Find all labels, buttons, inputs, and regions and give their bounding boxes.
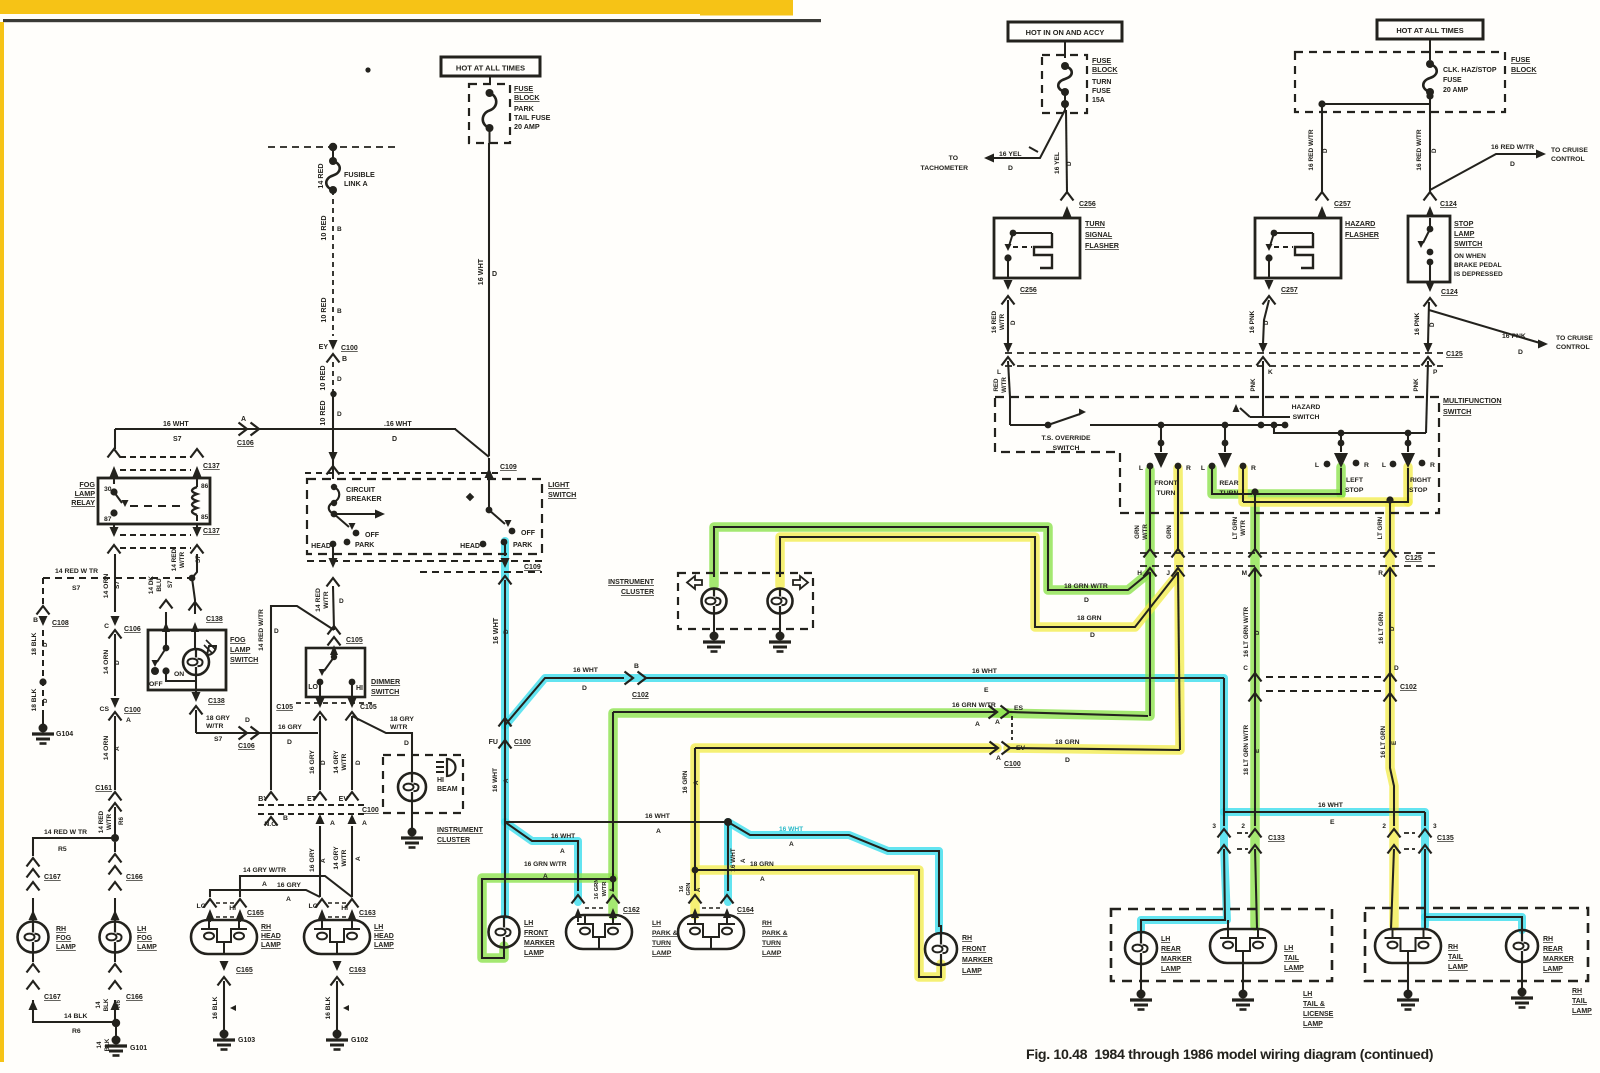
svg-text:TAIL: TAIL	[1448, 954, 1464, 961]
svg-text:W/TR: W/TR	[602, 881, 608, 897]
svg-text:W/TR: W/TR	[999, 313, 1006, 330]
wire: 16 WHT branch to LH park lamp	[505, 822, 578, 891]
svg-text:C100: C100	[341, 345, 358, 352]
svg-text:LAMP: LAMP	[1572, 1008, 1592, 1015]
node: yellow splice to RH front marker	[692, 867, 699, 874]
svg-text:MULTIFUNCTION: MULTIFUNCTION	[1443, 396, 1502, 405]
svg-text:D: D	[1263, 320, 1270, 325]
svg-text:18 LT GRN W/TR: 18 LT GRN W/TR	[1243, 724, 1250, 775]
svg-text:PARK &: PARK &	[762, 930, 788, 937]
wire: 16 GRN main run to front right	[1178, 572, 1180, 750]
wire: rear turn R output	[1242, 468, 1244, 502]
svg-text:RH: RH	[1448, 944, 1458, 951]
svg-text:C105: C105	[346, 637, 363, 644]
connector C100 EV	[990, 742, 999, 755]
svg-text:16 PNK: 16 PNK	[1502, 333, 1526, 340]
wire: 16 GRN W/TR main run to front left	[1149, 572, 1151, 716]
ground G101	[115, 1023, 117, 1038]
multifunction switch dashed outline	[995, 397, 1439, 513]
svg-text:A: A	[693, 780, 700, 785]
svg-text:CLK. HAZ/STOP: CLK. HAZ/STOP	[1443, 67, 1497, 74]
svg-text:TAIL: TAIL	[1284, 955, 1300, 962]
svg-text:LO: LO	[309, 903, 318, 910]
svg-text:OFF: OFF	[521, 530, 536, 537]
svg-text:C167: C167	[44, 874, 61, 881]
node: splice on feed bus	[329, 143, 337, 151]
wire: 16 WHT down to RH park lamp	[727, 822, 729, 891]
wire: 16 YEL branch to tachometer	[990, 110, 1065, 158]
svg-text:A: A	[760, 876, 765, 883]
svg-text:C257: C257	[1334, 201, 1351, 208]
svg-text:16 GRY: 16 GRY	[278, 724, 302, 731]
svg-text:A: A	[114, 746, 121, 751]
svg-text:LAMP: LAMP	[261, 942, 281, 949]
node: splice in 10 RED	[330, 391, 336, 397]
svg-text:LINK A: LINK A	[344, 179, 368, 188]
svg-text:MARKER: MARKER	[1543, 956, 1574, 963]
wire: LT GRN down to C125	[1389, 502, 1391, 549]
svg-text:C: C	[104, 623, 109, 630]
svg-text:W/TR: W/TR	[179, 551, 186, 568]
svg-text:2: 2	[1382, 823, 1386, 830]
ground G103	[220, 1030, 229, 1039]
svg-text:G101: G101	[130, 1045, 147, 1052]
svg-text:16 WHT: 16 WHT	[476, 258, 485, 285]
svg-text:14 RED W TR: 14 RED W TR	[55, 568, 98, 575]
connector C138 lower	[195, 675, 197, 692]
svg-text:R6: R6	[115, 1000, 122, 1008]
svg-text:R6: R6	[118, 817, 125, 825]
wire: fuse output tee inside fuse block	[1322, 103, 1430, 105]
wire: 16 PNK to C125 (stop)	[1428, 302, 1429, 344]
svg-text:LAMP: LAMP	[75, 489, 96, 498]
svg-text:R: R	[1378, 570, 1383, 577]
svg-text:LAMP: LAMP	[524, 950, 544, 957]
svg-text:C163: C163	[359, 910, 376, 917]
svg-text:D: D	[1389, 626, 1396, 631]
connector C108	[42, 578, 44, 608]
wire highlight: LT GRN W/TR rear-left combined (green)	[1212, 468, 1341, 494]
svg-text:A: A	[241, 416, 246, 423]
page: stray ink speck	[365, 67, 370, 72]
svg-text:W/TR: W/TR	[106, 813, 113, 830]
svg-text:HI: HI	[229, 905, 236, 912]
svg-text:D: D	[1431, 148, 1438, 153]
ground G102	[333, 1030, 342, 1039]
svg-text:C108: C108	[52, 620, 69, 627]
wire: 16 WHT branch to fog lamp relay (horizontal)	[115, 428, 456, 430]
connector C163 (LH head lamp)	[316, 899, 329, 908]
svg-text:FU: FU	[489, 739, 498, 746]
svg-text:L: L	[1139, 465, 1143, 472]
svg-text:16: 16	[679, 885, 685, 892]
svg-text:14 ORN: 14 ORN	[103, 650, 110, 675]
wire: hazard output row	[1274, 425, 1426, 433]
LH head lamp	[304, 920, 370, 954]
svg-text:RH: RH	[762, 920, 772, 927]
svg-text:LAMP: LAMP	[137, 944, 157, 951]
connector C109 below light switch	[307, 560, 542, 562]
svg-text:D: D	[1010, 320, 1017, 325]
wire: 18 GRN run from C100 EV to front right (yellow)	[1010, 748, 1180, 750]
svg-text:16 GRN: 16 GRN	[682, 770, 689, 793]
svg-text:14 RED: 14 RED	[98, 810, 105, 833]
wire: LT GRN W/TR down right side	[1254, 570, 1256, 826]
wire: 16 BLK to ground G103	[223, 981, 225, 1032]
wire: GRN W/TR front turn L down to C125	[1149, 468, 1151, 549]
wire: GRN front turn R down to C125	[1177, 468, 1179, 549]
svg-text:D: D	[337, 411, 342, 418]
connector C109 right pin	[485, 468, 494, 478]
svg-text:A: A	[740, 858, 747, 863]
svg-text:LAMP: LAMP	[230, 645, 251, 654]
svg-text:HI: HI	[356, 685, 363, 692]
svg-text:18 GRY: 18 GRY	[390, 716, 414, 723]
fuse: PARK TAIL FUSE 20 AMP	[486, 89, 494, 97]
svg-text:D: D	[1090, 632, 1095, 639]
svg-text:SWITCH: SWITCH	[371, 687, 399, 696]
connector C100 (CS pin)	[111, 698, 120, 708]
svg-text:18 GRY: 18 GRY	[206, 715, 230, 722]
LH rear marker lamp	[1125, 932, 1157, 964]
svg-text:CS: CS	[100, 706, 110, 713]
svg-text:R: R	[1430, 462, 1435, 469]
svg-text:A: A	[696, 887, 702, 892]
svg-text:14 RED W/TR: 14 RED W/TR	[258, 609, 265, 651]
svg-text:D: D	[1084, 597, 1089, 604]
T.S. override switch	[1009, 397, 1011, 425]
connector C100 (EY / B)	[329, 340, 338, 350]
svg-text:14 RED: 14 RED	[316, 163, 325, 188]
svg-text:HEAD: HEAD	[460, 543, 480, 550]
svg-text:H: H	[1137, 570, 1142, 577]
svg-text:A: A	[320, 858, 327, 863]
svg-text:16 RED W/TR: 16 RED W/TR	[1491, 144, 1534, 151]
svg-text:INSTRUMENT: INSTRUMENT	[608, 579, 655, 586]
svg-text:W/TR: W/TR	[390, 724, 407, 731]
connector C166 lower	[114, 952, 116, 962]
wire: 14 GRY W/TR crossover to RH headlamp HI	[240, 876, 352, 897]
svg-text:18 GRN: 18 GRN	[1055, 739, 1080, 746]
svg-text:HOT AT ALL TIMES: HOT AT ALL TIMES	[1396, 26, 1463, 35]
svg-text:TURN: TURN	[1157, 490, 1176, 497]
ground RH tail lamp	[1407, 963, 1409, 992]
svg-text:HAZARD: HAZARD	[1345, 219, 1375, 228]
svg-text:BRAKE PEDAL: BRAKE PEDAL	[1454, 262, 1502, 269]
svg-text:CONTROL: CONTROL	[1551, 156, 1585, 163]
connector C256 (flasher input)	[1061, 192, 1074, 201]
svg-text:LT GRN: LT GRN	[1232, 516, 1239, 539]
svg-text:.16 WHT: .16 WHT	[384, 421, 412, 428]
svg-text:LEFT: LEFT	[1346, 477, 1364, 484]
svg-text:W/TR: W/TR	[341, 849, 348, 866]
svg-text:TO CRUISE: TO CRUISE	[1556, 335, 1593, 342]
svg-text:16 WHT: 16 WHT	[972, 668, 998, 675]
wire: 16 BLK to ground G102	[336, 981, 338, 1032]
svg-text:16 WHT: 16 WHT	[645, 813, 671, 820]
svg-text:BLOCK: BLOCK	[1092, 65, 1118, 74]
svg-text:C106: C106	[238, 743, 255, 750]
node: ground splice	[112, 1019, 120, 1027]
svg-text:A: A	[355, 856, 362, 861]
svg-text:TURN: TURN	[1085, 219, 1105, 228]
fuse: TURN FUSE 15A	[1061, 62, 1069, 70]
svg-text:A: A	[126, 717, 131, 724]
svg-text:E: E	[1330, 819, 1335, 826]
left turn indicator lamp	[702, 589, 727, 614]
bus: dashed feed line at top	[268, 146, 398, 148]
svg-text:C135: C135	[1437, 835, 1454, 842]
svg-text:FOG: FOG	[230, 635, 246, 644]
wire: HEAD output 14 RED W/TR leaving light switch	[332, 544, 334, 558]
svg-text:16 WHT: 16 WHT	[551, 833, 575, 840]
svg-text:TURN: TURN	[762, 940, 781, 947]
fuse: CLK. HAZ/STOP FUSE 20 AMP	[1426, 60, 1434, 68]
fuse block (park tail fuse) dashed box	[469, 84, 510, 143]
light switch right contacts OFF/PARK/HEAD	[509, 528, 516, 535]
svg-text:ON: ON	[174, 671, 184, 678]
RH rear lamps dashed box	[1365, 908, 1588, 981]
svg-text:W/TR: W/TR	[1001, 377, 1008, 393]
wire: PARK output 16 WHT (cyan) leaving light switch	[504, 541, 506, 556]
svg-text:LH: LH	[374, 924, 383, 931]
wire: 16 RED W/TR to stop lamp switch	[1429, 104, 1431, 192]
connector C105 above dimmer switch	[328, 626, 341, 635]
wire: 14 RED W/TR from relay coil down to fog switch	[196, 524, 198, 535]
svg-text:C166: C166	[126, 994, 143, 1001]
connector C102 (16 WHT)	[625, 672, 634, 685]
page: yellow left edge strip	[0, 22, 4, 1062]
svg-text:MARKER: MARKER	[962, 957, 993, 964]
svg-text:BREAKER: BREAKER	[346, 494, 382, 503]
svg-text:LICENSE: LICENSE	[1303, 1011, 1334, 1018]
svg-text:A: A	[656, 828, 661, 835]
svg-text:R5: R5	[58, 846, 67, 853]
wire: 16 GRN to RH lamps	[695, 747, 996, 749]
svg-text:TACHOMETER: TACHOMETER	[921, 165, 969, 172]
ground RH rear marker	[1521, 962, 1523, 990]
svg-text:D: D	[245, 717, 250, 724]
svg-text:FUSE: FUSE	[1511, 55, 1530, 64]
svg-text:10 RED: 10 RED	[318, 365, 327, 390]
svg-text:D: D	[1008, 165, 1013, 172]
svg-text:LH: LH	[1284, 945, 1293, 952]
svg-text:ET: ET	[307, 796, 317, 803]
page: black rule under header	[3, 19, 821, 22]
svg-text:D: D	[404, 740, 409, 747]
svg-text:HI: HI	[341, 905, 348, 912]
hazard flasher	[1255, 218, 1341, 278]
svg-text:14: 14	[95, 1001, 102, 1008]
svg-text:10 RED: 10 RED	[319, 297, 328, 322]
svg-text:STOP: STOP	[1409, 487, 1428, 494]
svg-text:HEAD: HEAD	[311, 543, 331, 550]
fog lamp switch box	[148, 630, 226, 690]
svg-text:16 BLK: 16 BLK	[212, 996, 219, 1019]
svg-text:D: D	[1254, 630, 1261, 635]
svg-text:D: D	[1066, 161, 1073, 166]
svg-text:C106: C106	[124, 626, 141, 633]
svg-text:TURN: TURN	[652, 940, 671, 947]
ground LH rear marker	[1140, 964, 1142, 992]
connector C257 (hazard flasher input)	[1316, 192, 1329, 201]
svg-text:L: L	[1315, 462, 1319, 469]
connector FU / C100	[499, 718, 512, 727]
connector C167 upper	[27, 858, 40, 867]
wire: 16 GRN W/TR to LH lamps	[613, 711, 995, 713]
svg-text:A: A	[995, 719, 1000, 726]
svg-text:TURN: TURN	[1092, 79, 1111, 86]
hazard switch contacts	[1258, 422, 1265, 429]
svg-text:PARK: PARK	[514, 104, 535, 113]
svg-text:LAMP: LAMP	[374, 942, 394, 949]
svg-text:16 YEL: 16 YEL	[1054, 152, 1061, 174]
connector C124 (stop lamp switch output)	[1426, 282, 1435, 292]
svg-text:W/TR: W/TR	[323, 591, 330, 608]
svg-text:E: E	[1391, 741, 1398, 745]
RH tail lamp	[1375, 929, 1441, 963]
svg-text:D: D	[503, 629, 510, 634]
right turn indicator lamp	[768, 589, 793, 614]
svg-text:B: B	[337, 226, 342, 233]
svg-text:R: R	[1364, 462, 1369, 469]
connector C100 (BY / ET / EV row)	[265, 792, 278, 801]
svg-text:A: A	[610, 887, 616, 892]
fuse block (turn fuse) dashed box	[1042, 55, 1087, 113]
svg-text:BLOCK: BLOCK	[514, 93, 540, 102]
connector C138 upper	[189, 602, 202, 611]
RH fog lamp	[29, 910, 38, 920]
wire: RED W/TR into multifunction switch	[1008, 361, 1010, 397]
wire: dashed 14 RED W TR ground link	[43, 577, 192, 579]
connector C137 below fog lamp relay	[110, 527, 119, 537]
svg-text:FOG: FOG	[79, 480, 95, 489]
RH rear marker lamp	[1506, 930, 1538, 962]
wire: 16 GRY to headlamps low beams	[319, 826, 321, 897]
svg-text:CLUSTER: CLUSTER	[621, 589, 654, 596]
svg-text:R: R	[1251, 465, 1256, 472]
svg-text:E: E	[1254, 749, 1261, 753]
connector C124 (stop lamp switch input)	[1424, 192, 1437, 201]
svg-text:HI: HI	[437, 777, 444, 784]
svg-text:C163: C163	[349, 967, 366, 974]
svg-text:C102: C102	[1400, 684, 1417, 691]
svg-text:HAZARD: HAZARD	[1292, 404, 1321, 411]
circuit breaker inside light switch	[331, 484, 337, 490]
wire: 16 GRY LO leg down to C100 ET	[319, 716, 321, 790]
svg-text:14 BLK: 14 BLK	[64, 1013, 88, 1020]
svg-text:18 BLK: 18 BLK	[31, 632, 38, 655]
svg-text:W/TR: W/TR	[1240, 520, 1247, 536]
wire: 16 RED W/TR to hazard flasher	[1321, 104, 1323, 192]
svg-text:S7: S7	[214, 736, 223, 743]
wire: right stop output to rear-right splice	[1243, 468, 1408, 502]
svg-text:E: E	[984, 687, 989, 694]
svg-text:C102: C102	[632, 692, 649, 699]
wire: 10 RED dashed down to C100	[332, 190, 334, 336]
fusible link A	[332, 147, 334, 161]
svg-text:D: D	[1518, 349, 1523, 356]
svg-text:G104: G104	[56, 731, 73, 738]
svg-text:D: D	[1322, 148, 1329, 153]
rear turn wiper	[1222, 422, 1229, 429]
ground G104	[42, 712, 44, 726]
svg-text:20 AMP: 20 AMP	[514, 122, 540, 131]
svg-text:LH: LH	[1161, 936, 1170, 943]
svg-text:PNK: PNK	[1413, 378, 1420, 392]
svg-text:Fig. 10.48 1984 through 1986: Fig. 10.48 1984 through 1986 model wirin…	[1026, 1047, 1434, 1063]
wire highlight: 16 WHT branch to RH park and marker lamps (cyan)	[724, 824, 732, 902]
fog lamp switch lamp	[194, 630, 196, 650]
svg-text:RELAY: RELAY	[71, 498, 95, 507]
connector C125 (lower, harness to front/rear)	[1140, 552, 1440, 554]
svg-text:C109: C109	[500, 464, 517, 471]
svg-text:HEAD: HEAD	[374, 933, 394, 940]
svg-text:W/TR: W/TR	[1142, 524, 1149, 540]
icon: left turn hollow arrow	[687, 576, 702, 589]
connector C125 (column to multifunction switch)	[1005, 352, 1443, 354]
high beam indicator lamp	[398, 773, 426, 801]
svg-text:A: A	[975, 721, 980, 728]
RH head lamp	[191, 920, 257, 954]
svg-text:16 LT GRN: 16 LT GRN	[1380, 726, 1387, 759]
svg-text:C257: C257	[1281, 287, 1298, 294]
node: 16 WHT RH splice	[724, 818, 732, 826]
svg-text:14 GRY: 14 GRY	[333, 846, 340, 870]
wire: battery feed into fuse block	[489, 76, 491, 84]
svg-text:GRN: GRN	[1134, 525, 1141, 539]
svg-text:16 BLK: 16 BLK	[325, 996, 332, 1019]
svg-text:L: L	[997, 369, 1001, 376]
svg-text:16 RED W/TR: 16 RED W/TR	[1308, 129, 1315, 170]
svg-text:L: L	[1201, 465, 1205, 472]
wire: 14 GRY W/TR to headlamps high beams	[351, 826, 353, 897]
svg-text:16 WHT: 16 WHT	[163, 421, 189, 428]
svg-text:14 GRY W/TR: 14 GRY W/TR	[243, 867, 286, 874]
svg-text:LAMP: LAMP	[762, 950, 782, 957]
svg-text:14 RED: 14 RED	[171, 548, 178, 571]
svg-text:A: A	[330, 820, 335, 827]
svg-text:D: D	[582, 685, 587, 692]
svg-text:G102: G102	[351, 1037, 368, 1044]
svg-text:IS DEPRESSED: IS DEPRESSED	[1454, 271, 1503, 278]
svg-text:GRN: GRN	[686, 883, 692, 896]
svg-text:LO: LO	[197, 903, 206, 910]
wire: 16 GRN W/TR run from C100 ES to front left (green)	[1010, 712, 1148, 716]
svg-text:CLUSTER: CLUSTER	[437, 837, 470, 844]
connector C135	[1404, 832, 1415, 834]
svg-text:14 ORN: 14 ORN	[103, 736, 110, 761]
svg-text:HEAD: HEAD	[261, 933, 281, 940]
RH front marker lamp	[925, 933, 957, 965]
svg-text:B: B	[337, 308, 342, 315]
svg-text:16 WHT: 16 WHT	[491, 617, 500, 644]
dimmer switch box	[330, 645, 338, 655]
node: rear-left combine splice	[1251, 488, 1258, 495]
wire: 16 WHT to RH front marker	[728, 822, 941, 934]
svg-text:L: L	[1382, 462, 1386, 469]
svg-text:FLASHER: FLASHER	[1085, 241, 1120, 250]
svg-text:B: B	[283, 815, 288, 822]
svg-text:C106: C106	[237, 440, 254, 447]
connector C133	[1237, 832, 1248, 834]
svg-text:18 GRN: 18 GRN	[750, 861, 774, 868]
svg-text:D: D	[492, 271, 497, 278]
connector C164	[689, 895, 702, 904]
svg-text:16 GRN W/TR: 16 GRN W/TR	[524, 861, 567, 868]
svg-text:16 GRY: 16 GRY	[309, 848, 316, 872]
svg-text:C138: C138	[206, 616, 223, 623]
